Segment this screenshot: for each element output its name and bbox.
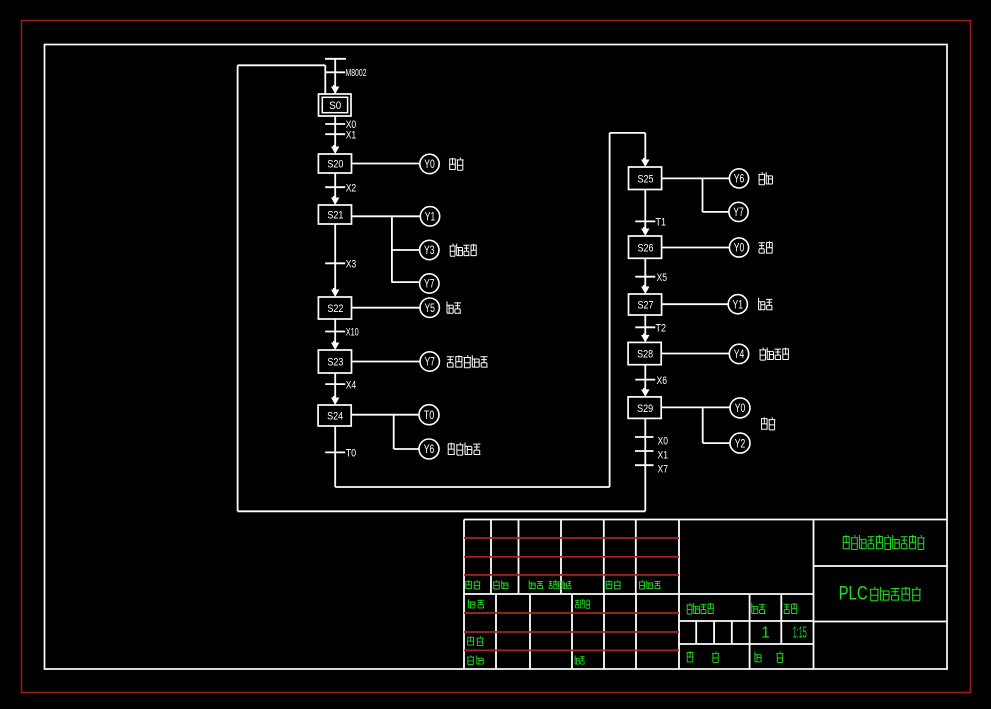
svg-text:PLC: PLC xyxy=(839,584,868,605)
svg-text:X7: X7 xyxy=(658,464,669,476)
svg-text:S28: S28 xyxy=(637,349,653,361)
svg-text:Y0: Y0 xyxy=(734,243,745,255)
svg-text:Y7: Y7 xyxy=(733,207,744,219)
svg-text:X5: X5 xyxy=(657,272,668,284)
svg-text:X10: X10 xyxy=(346,327,359,339)
svg-text:Y7: Y7 xyxy=(424,279,435,291)
svg-text:T0: T0 xyxy=(424,410,435,422)
svg-text:X1: X1 xyxy=(346,129,357,141)
svg-text:1: 1 xyxy=(761,625,770,642)
svg-text:S24: S24 xyxy=(327,411,343,423)
svg-text:T2: T2 xyxy=(656,323,667,335)
svg-text:S21: S21 xyxy=(327,210,343,222)
svg-text:Y1: Y1 xyxy=(733,299,744,311)
svg-text:Y6: Y6 xyxy=(734,174,745,186)
svg-text:Y4: Y4 xyxy=(734,349,745,361)
svg-text:Y5: Y5 xyxy=(424,303,435,315)
svg-text:Y2: Y2 xyxy=(735,438,746,450)
svg-text:Y0: Y0 xyxy=(424,159,435,171)
svg-text:T1: T1 xyxy=(656,217,667,229)
svg-text:X1: X1 xyxy=(658,450,669,462)
svg-text:Y7: Y7 xyxy=(424,357,435,369)
svg-text:X2: X2 xyxy=(346,182,357,194)
svg-text:Y3: Y3 xyxy=(424,245,435,257)
svg-text:S29: S29 xyxy=(637,403,653,415)
svg-text:M8002: M8002 xyxy=(346,67,367,79)
svg-text:S26: S26 xyxy=(638,242,654,254)
svg-text:Y6: Y6 xyxy=(424,444,435,456)
svg-text:Y0: Y0 xyxy=(735,403,746,415)
svg-text:T0: T0 xyxy=(346,448,357,460)
svg-text:S23: S23 xyxy=(327,357,343,369)
svg-text:X0: X0 xyxy=(658,436,669,448)
svg-text:S22: S22 xyxy=(327,303,343,315)
svg-text:X3: X3 xyxy=(346,259,357,271)
svg-text:Y1: Y1 xyxy=(425,212,436,224)
svg-text:S0: S0 xyxy=(329,100,341,112)
svg-text:S27: S27 xyxy=(638,300,654,312)
svg-text:X4: X4 xyxy=(346,379,357,391)
svg-text:S20: S20 xyxy=(327,159,343,171)
svg-text:1:15: 1:15 xyxy=(793,625,807,642)
svg-text:X6: X6 xyxy=(657,375,668,387)
svg-text:S25: S25 xyxy=(638,173,654,185)
